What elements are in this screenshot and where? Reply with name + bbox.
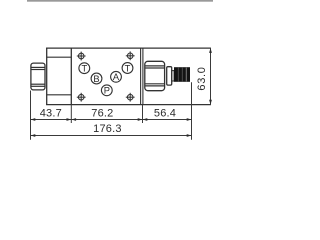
mounting hole top-left [77,52,86,61]
dimension line row1 [31,119,192,121]
arrows row1 at x71.3 [67,118,72,121]
svg-text:176.3: 176.3 [93,123,122,135]
valve body left edge [70,48,72,105]
svg-text:T: T [81,64,87,74]
arrow row1 at x191.5 right [187,118,192,121]
svg-text:63.0: 63.0 [196,66,208,90]
svg-text:B: B [93,74,99,84]
dimension line row2 (176.3) [31,135,192,137]
svg-text:T: T [125,63,131,73]
extension line right tip (x=191.5) [191,82,193,140]
neck [172,71,174,81]
svg-text:A: A [113,72,120,82]
arrows row1 at x142.5 [138,118,143,121]
extension line body right (x=142.5) [142,105,144,123]
port T right [122,63,133,74]
port P [101,85,112,96]
svg-text:76.2: 76.2 [91,108,113,120]
hex plug (left end) [31,63,45,90]
port B [91,73,102,84]
arrow row2 right [187,134,192,137]
valve body bottom edge (with 63.0 bottom extension) [46,104,211,106]
dimension line 63.0 vertical [210,48,212,105]
arrow row2 left [31,134,36,137]
mounting hole bottom-right [126,93,135,102]
knurled adjustment knob [174,67,190,82]
port A [111,71,122,82]
port T left [79,63,90,74]
extension line body left (x=71.3) [70,105,72,123]
svg-text:P: P [104,86,110,96]
valve body top edge (with 63.0 top extension) [46,47,211,49]
mounting hole bottom-left [77,93,86,102]
svg-text:43.7: 43.7 [40,108,62,120]
arrow row1 at x30.5 left [31,118,36,121]
svg-text:56.4: 56.4 [154,108,176,120]
adjuster hex nut [145,61,165,90]
port letters [81,63,130,95]
arrow 63.0 top [209,48,212,53]
dimension arrowheads [31,48,212,137]
end cap block (left spacer) [47,48,72,105]
dimension texts [40,66,208,135]
arrow 63.0 bottom [209,100,212,105]
mounting hole top-right [126,51,135,60]
washer collar [167,67,172,85]
top divider line [27,0,213,2]
extension line left (x=30.5) [30,91,32,140]
valve body right edge (double line) [141,48,143,105]
